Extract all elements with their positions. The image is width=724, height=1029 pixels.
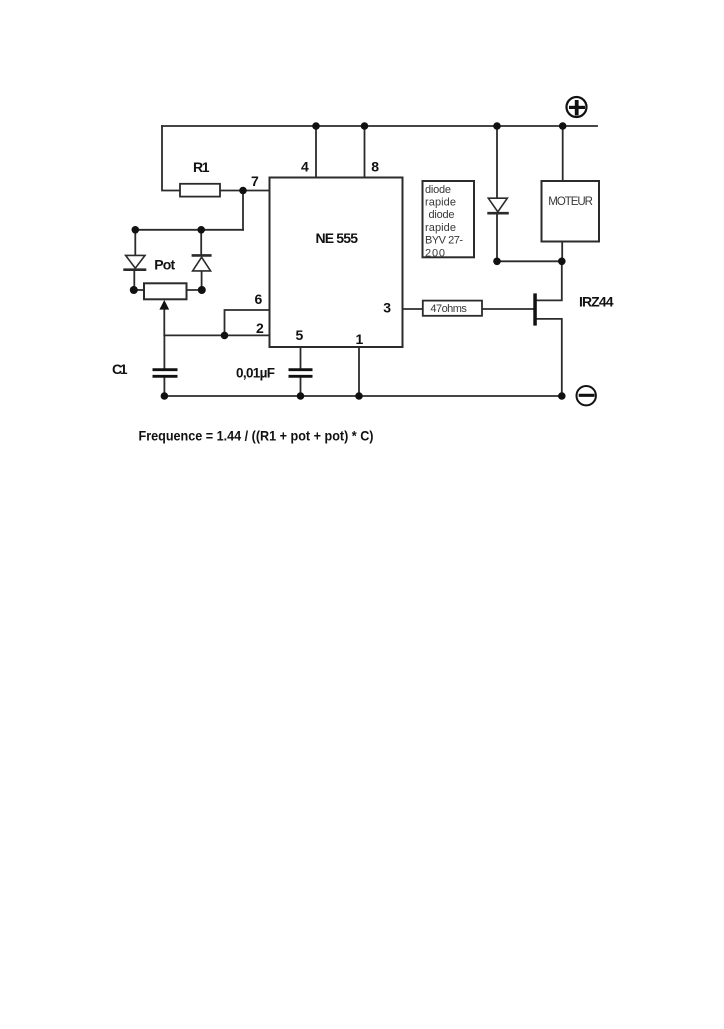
wire diode node to motor node bbox=[497, 260, 562, 262]
wire right diode cathode up to top row bbox=[200, 230, 202, 256]
svg-text:1: 1 bbox=[356, 331, 364, 347]
svg-text:Frequence = 1.44 / ((R1 + pot: Frequence = 1.44 / ((R1 + pot + pot) * C… bbox=[139, 428, 374, 444]
power terminal minus bbox=[577, 386, 596, 405]
wire pin 6 stub and jog down bbox=[225, 310, 270, 335]
svg-text:rapide: rapide bbox=[425, 197, 456, 209]
svg-text:200: 200 bbox=[425, 247, 445, 259]
svg-text:diode: diode bbox=[429, 209, 455, 221]
wire horizontal diode top row bbox=[135, 229, 243, 231]
svg-text:rapide: rapide bbox=[425, 222, 456, 234]
wire left drop from rail to R1 bbox=[162, 126, 180, 191]
svg-text:R1: R1 bbox=[193, 159, 210, 175]
wire freewheel diode cathode down to motor node bbox=[496, 213, 498, 261]
node junction rail/diode bbox=[493, 122, 501, 130]
info box diode rapide BYV 27-200 bbox=[423, 181, 475, 257]
wire left diode cathode to pot left node bbox=[133, 271, 135, 290]
node junction rail/pin8 bbox=[361, 122, 369, 130]
svg-text:MOTEUR: MOTEUR bbox=[548, 196, 593, 208]
svg-text:Pot: Pot bbox=[154, 257, 175, 273]
svg-text:diode: diode bbox=[425, 184, 451, 196]
node junction source/ground bbox=[558, 392, 566, 400]
wire 0,01uF cap to ground rail bbox=[300, 378, 302, 396]
diode D1 left of pot (pointing down) bbox=[123, 255, 146, 269]
wire pin 1 down to ground rail bbox=[358, 347, 360, 396]
IC U1 NE555 body bbox=[270, 178, 403, 348]
node junction diode row left bbox=[132, 226, 140, 234]
motor M1 body bbox=[542, 181, 600, 242]
node junction diode/motor bottom left bbox=[493, 258, 501, 266]
wire pot wiper down to pin 2 net bbox=[163, 309, 165, 335]
wire bottom ground rail bbox=[164, 395, 562, 397]
wire pin 5 down to 0,01uF cap bbox=[300, 347, 302, 368]
node junction pin1/ground bbox=[355, 392, 363, 400]
wire mosfet source lead to ground rail bbox=[536, 319, 562, 396]
resistor R2 47ohms body bbox=[423, 301, 482, 316]
wire motor top drop from rail bbox=[562, 126, 564, 181]
capacitor C1 plates bbox=[153, 370, 178, 377]
wire top supply rail bbox=[162, 125, 597, 127]
node junction rail/pin4 bbox=[312, 122, 320, 130]
diode D3 freewheel (pointing down) bbox=[487, 198, 509, 213]
wire motor bottom to drain node bbox=[561, 242, 563, 262]
wire pot left node to pot body bbox=[134, 289, 144, 291]
node junction motor/drain bbox=[558, 258, 566, 266]
wire C1 bottom to ground rail bbox=[163, 378, 165, 396]
svg-text:4: 4 bbox=[301, 159, 309, 175]
diode D2 right of pot (pointing up) bbox=[192, 255, 212, 271]
wire 47ohms to mosfet gate bbox=[482, 308, 533, 310]
potentiometer body bbox=[144, 283, 187, 299]
node junction pin 2 bbox=[221, 332, 229, 340]
svg-text:5: 5 bbox=[296, 327, 304, 343]
node junction cap5/ground bbox=[297, 392, 305, 400]
potentiometer wiper arrow bbox=[159, 300, 169, 310]
svg-text:6: 6 bbox=[255, 291, 263, 307]
wire pin 8 drop from rail to NE555 bbox=[364, 126, 366, 178]
svg-text:47ohms: 47ohms bbox=[430, 303, 467, 315]
svg-text:2: 2 bbox=[256, 320, 264, 336]
wire node 7 down to diode/pot row bbox=[242, 191, 244, 230]
wire pin 4 drop from rail to NE555 bbox=[315, 126, 317, 178]
wire mosfet drain lead bbox=[536, 261, 562, 300]
wire left diode anode lead bbox=[134, 230, 136, 256]
transistor Q1 IRZ44 gate bar bbox=[533, 293, 537, 325]
node junction rail/motor bbox=[559, 122, 567, 130]
wire pin2 net down to C1 bbox=[163, 335, 165, 368]
label diode rapide text lines bbox=[425, 184, 463, 259]
svg-text:3: 3 bbox=[383, 300, 391, 316]
svg-text:C1: C1 bbox=[112, 361, 128, 377]
resistor R1 body bbox=[180, 184, 220, 197]
wire pin 2 horizontal bbox=[164, 334, 269, 336]
node junction pot right bbox=[198, 286, 206, 294]
wire right diode anode lead bbox=[201, 271, 203, 290]
capacitor C2 0,01uF plates bbox=[289, 370, 313, 377]
node junction pin 7 bbox=[239, 187, 247, 195]
wire pin 3 to 47ohms resistor bbox=[403, 308, 423, 310]
svg-text:0,01µF: 0,01µF bbox=[236, 366, 275, 381]
wire R1 output to pin 7 of NE555 bbox=[220, 190, 270, 192]
svg-text:8: 8 bbox=[371, 159, 379, 175]
svg-text:NE 555: NE 555 bbox=[316, 230, 359, 246]
svg-text:7: 7 bbox=[251, 173, 259, 189]
power terminal plus bbox=[567, 97, 587, 117]
node junction diode row right bbox=[197, 226, 205, 234]
node junction C1/ground bbox=[161, 392, 169, 400]
svg-text:IRZ44: IRZ44 bbox=[579, 294, 614, 310]
wire freewheel diode drop from rail bbox=[496, 126, 498, 198]
node junction pot left bbox=[130, 286, 138, 294]
wire pot body right to right node bbox=[187, 289, 202, 291]
svg-text:BYV 27-: BYV 27- bbox=[425, 235, 463, 247]
